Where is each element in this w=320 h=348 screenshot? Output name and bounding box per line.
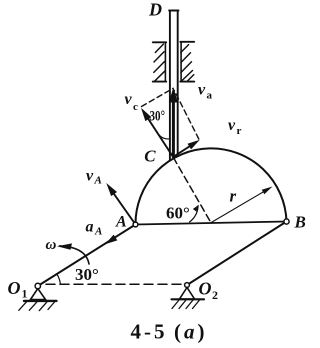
dashed radius line M-C (60 deg line) <box>173 157 211 222</box>
link O1A <box>38 225 136 287</box>
wire: dashed frame line O1-O2 <box>46 283 182 285</box>
svg-text:60°: 60° <box>166 204 190 223</box>
pivot joint O1 <box>35 283 40 288</box>
svg-text:v: v <box>228 117 236 134</box>
pivot O1 ground line <box>24 300 57 302</box>
angle arc 30deg at C <box>157 131 170 139</box>
arrow va (absolute velocity along rod) <box>172 100 175 156</box>
svg-text:v: v <box>86 168 94 185</box>
velocity parallelogram dashed side (vr tip to va tip) <box>174 91 199 140</box>
svg-text:A: A <box>94 175 102 187</box>
omega arc arrow <box>60 246 90 264</box>
slider rod (follower) <box>169 11 178 160</box>
pivot joint O2 <box>185 283 190 288</box>
radius arrow r <box>211 191 265 223</box>
svg-text:30°: 30° <box>75 265 99 284</box>
joint A <box>133 222 138 227</box>
svg-text:4-5: 4-5 <box>131 320 168 344</box>
arrow vA (velocity of A) <box>110 188 136 224</box>
arrow vr (relative sliding velocity) <box>173 143 196 158</box>
angle arc 30deg at O1 <box>57 274 61 285</box>
svg-text:30°: 30° <box>150 109 166 125</box>
arrow vc (transport velocity) <box>145 114 173 157</box>
svg-text:O: O <box>8 278 21 298</box>
pivot O2 ground hatching <box>172 300 200 309</box>
svg-text:c: c <box>133 101 138 113</box>
joint B <box>284 219 289 224</box>
svg-text:2: 2 <box>212 288 218 302</box>
svg-text:B: B <box>294 213 306 232</box>
angle arc 60deg with arrowhead <box>190 206 199 222</box>
svg-text:v: v <box>125 91 133 108</box>
svg-text:O: O <box>199 279 212 299</box>
link O2B <box>187 222 287 286</box>
cam semicircle disk <box>135 148 286 224</box>
guide block right (hatched) <box>180 42 194 82</box>
pivot O1 support triangle <box>31 289 46 300</box>
pivot O2 support triangle <box>180 288 195 300</box>
svg-text:1: 1 <box>22 287 28 301</box>
pivot O1 ground hatching <box>19 302 55 311</box>
svg-text:(a): (a) <box>174 320 208 344</box>
svg-text:D: D <box>148 0 162 20</box>
svg-text:C: C <box>144 147 156 166</box>
svg-text:A: A <box>115 213 127 230</box>
guide block left (hatched) <box>153 42 166 81</box>
arrow aA (acceleration of A along link) <box>105 235 117 245</box>
line AB (cam base chord) <box>136 222 287 225</box>
pivot O2 ground line <box>172 298 205 300</box>
svg-text:ω: ω <box>46 237 57 253</box>
svg-text:r: r <box>230 187 237 206</box>
svg-text:v: v <box>198 82 206 99</box>
svg-text:a: a <box>86 219 94 236</box>
velocity parallelogram dashed side (vc tip to va tip) <box>142 89 173 107</box>
svg-text:r: r <box>237 125 242 137</box>
svg-text:A: A <box>94 226 102 238</box>
svg-text:a: a <box>207 90 213 102</box>
